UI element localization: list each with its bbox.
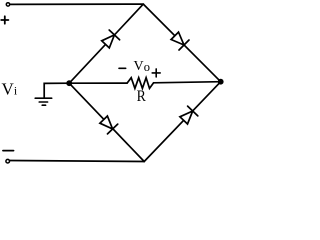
- svg-text:R: R: [137, 88, 146, 105]
- ground: [35, 98, 52, 105]
- diode D3 (on lower-left edge, pointing to B): [100, 116, 118, 134]
- diode D2 (on upper-right edge, pointing to R): [171, 32, 189, 50]
- svg-text:V: V: [2, 80, 15, 99]
- diode D4 (on lower-right edge, pointing to R): [180, 106, 198, 124]
- wire ground branch (node L to ground): [44, 83, 69, 98]
- terminal top-left: [6, 3, 9, 6]
- wire lower-left edge (node L to node B): [69, 83, 144, 161]
- node L (junction dot): [66, 80, 72, 86]
- wire middle right (resistor to node R): [154, 82, 221, 83]
- terminal bottom-left: [6, 159, 10, 163]
- label - (Vo left polarity): [119, 67, 126, 69]
- label - (bottom input): [3, 150, 14, 152]
- label + (Vo right polarity): [152, 69, 160, 77]
- wire middle left (node L to resistor): [69, 82, 127, 84]
- wire upper-left edge (node L to node T): [69, 4, 143, 83]
- wire bottom (terminal to node B): [10, 161, 144, 162]
- label Vi: [2, 80, 18, 99]
- svg-text:o: o: [144, 60, 150, 74]
- label Vo: [134, 59, 150, 74]
- svg-text:V: V: [134, 59, 144, 74]
- wire lower-right edge (node B to node R): [144, 82, 221, 162]
- diode D1 (on upper-left edge, pointing to T): [102, 30, 120, 48]
- resistor R: [127, 78, 154, 89]
- label + (top input): [1, 16, 8, 23]
- node R (junction dot): [218, 79, 224, 85]
- svg-text:i: i: [14, 83, 18, 97]
- wire upper-right edge (node T to node R): [143, 4, 220, 82]
- wire top (terminal to node T): [11, 3, 144, 5]
